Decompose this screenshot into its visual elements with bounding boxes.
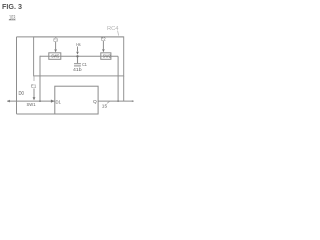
svg-text:E3: E3: [53, 37, 58, 42]
signal stub E3: [55, 37, 57, 38]
leader line RC4: [118, 31, 119, 36]
svg-text:Q: Q: [93, 99, 97, 105]
svg-text:D0: D0: [19, 91, 25, 97]
wire feedback right vertical V6: [117, 56, 119, 101]
capacitor C1 top lead: [77, 56, 79, 63]
svg-text:E1: E1: [31, 84, 37, 89]
wire feedback left vertical V3: [39, 56, 41, 101]
wire bottom horizontal H5: [17, 113, 55, 115]
svg-text:Hs: Hs: [76, 42, 81, 47]
svg-text:FIG. 3: FIG. 3: [2, 2, 22, 11]
arrowhead Hs down: [76, 52, 79, 55]
junction dot input tap: [39, 100, 41, 102]
wire top horizontal H1: [17, 36, 124, 38]
arrowhead output end right: [132, 100, 134, 102]
arrowhead into flip-flop right: [51, 100, 55, 103]
capacitor C1 plate bottom: [74, 65, 81, 67]
svg-text:D1: D1: [56, 99, 62, 104]
wire input H3: [7, 100, 55, 102]
signal arrow E3 shaft: [55, 42, 57, 50]
signal arrow E2 shaft: [102, 41, 104, 49]
wire RC4 right edge extension V7: [123, 76, 125, 101]
junction dot capacitor node: [76, 55, 78, 57]
wire left vertical V1: [16, 37, 18, 114]
svg-text:E2: E2: [101, 37, 106, 42]
switch box SW5: [49, 53, 61, 60]
svg-text:41b: 41b: [73, 67, 82, 73]
svg-text:C1: C1: [82, 62, 87, 67]
switch box SW2: [101, 53, 111, 60]
junction dot output tap: [117, 100, 119, 102]
svg-text:15: 15: [102, 103, 108, 109]
wire output H4: [98, 100, 134, 102]
underline of 103: [9, 19, 16, 21]
svg-text:RC4: RC4: [107, 26, 119, 32]
signal arrow Hs shaft: [77, 47, 79, 52]
arrowhead E2 down: [102, 49, 105, 52]
signal line E1 stub from RC4 bottom: [33, 76, 35, 81]
box flip-flop: [55, 86, 98, 114]
box RC4: [34, 37, 124, 76]
arrowhead E1 down: [33, 97, 36, 100]
arrowhead input start left: [7, 100, 10, 103]
svg-text:SW1: SW1: [27, 102, 37, 107]
capacitor C1 plate top: [74, 63, 81, 65]
leader line 15: [107, 102, 110, 104]
arrowhead E3 down: [54, 49, 57, 52]
signal arrow E1 shaft: [33, 89, 35, 98]
svg-text:SW5: SW5: [51, 54, 60, 59]
wire feedback top H2: [40, 55, 118, 57]
svg-text:SW2: SW2: [103, 53, 112, 58]
